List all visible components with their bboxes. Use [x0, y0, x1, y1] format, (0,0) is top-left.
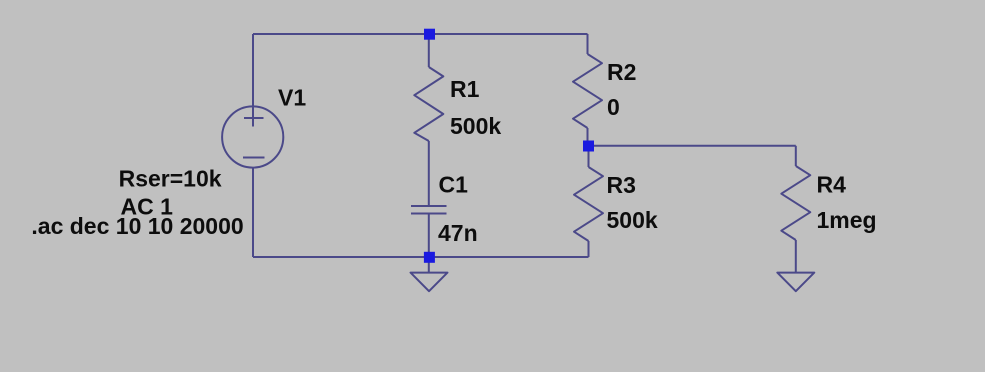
junction node top — [424, 29, 435, 40]
svg-text:0: 0 — [607, 94, 620, 120]
junction node bottom — [424, 252, 435, 263]
resistor R1 — [414, 67, 443, 141]
resistor R3 — [574, 167, 603, 241]
voltage source V1 — [222, 106, 283, 167]
svg-text:500k: 500k — [450, 113, 501, 139]
wire R2 bottom lead — [587, 128, 589, 146]
wire R3 bottom lead — [588, 241, 590, 257]
capacitor C1 — [411, 206, 447, 214]
wire R2 top lead — [587, 34, 589, 54]
wire R4 bottom lead — [795, 240, 797, 273]
wire V1 bottom lead — [252, 167, 254, 257]
svg-text:C1: C1 — [439, 172, 469, 198]
svg-text:Rser=10k: Rser=10k — [119, 166, 222, 192]
svg-text:.ac dec 10 10 20000: .ac dec 10 10 20000 — [31, 213, 243, 239]
svg-text:1meg: 1meg — [817, 207, 877, 233]
ground at C1 — [411, 273, 448, 292]
resistor R4 — [781, 166, 810, 240]
svg-text:R2: R2 — [607, 59, 636, 85]
ground at R4 — [777, 273, 814, 292]
wire V1 top lead — [252, 34, 254, 127]
wire bottom rail — [253, 256, 589, 258]
junction node middle — [583, 141, 594, 152]
svg-text:R4: R4 — [817, 172, 847, 198]
wire top rail — [253, 33, 588, 35]
wire R1 to C1 — [428, 141, 430, 206]
wire R3 top lead — [588, 146, 590, 167]
wire ground stub C1 — [428, 257, 430, 273]
svg-text:R3: R3 — [607, 172, 636, 198]
resistor R2 — [573, 54, 602, 128]
svg-text:500k: 500k — [607, 207, 658, 233]
wire C1 bottom lead — [428, 214, 430, 258]
wire R1 top lead — [428, 34, 430, 67]
wire middle rail — [589, 145, 796, 147]
svg-text:R1: R1 — [450, 76, 480, 102]
wire R4 top lead — [795, 146, 797, 166]
svg-text:47n: 47n — [438, 220, 478, 246]
svg-text:V1: V1 — [278, 84, 306, 110]
